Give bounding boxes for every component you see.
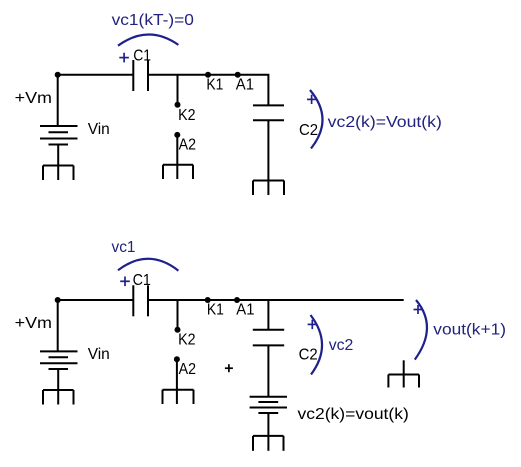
svg-text:K1: K1 [206, 77, 223, 94]
svg-text:C1: C1 [133, 48, 151, 65]
svg-text:vc2: vc2 [329, 337, 354, 354]
arc vc2 (top circuit) [310, 90, 323, 149]
svg-text:+Vm: +Vm [15, 90, 52, 107]
battery Vin (bottom circuit) [40, 351, 78, 369]
node K1 [205, 72, 211, 78]
svg-text:A1: A1 [236, 302, 254, 319]
svg-text:K2: K2 [178, 332, 195, 349]
wire (C1 right plate to C2 corner) [148, 75, 268, 106]
svg-text:vc1: vc1 [112, 239, 136, 256]
node N2 (Vin+ / C1 left, bottom circuit) [55, 297, 61, 303]
capacitor C2 (top circuit) [253, 105, 284, 120]
svg-text:vc2(k)=Vout(k): vc2(k)=Vout(k) [328, 114, 442, 131]
capacitor C1 (top circuit) [133, 60, 148, 91]
wire (C2 to battery vc2) [267, 345, 269, 396]
svg-text:Vin: Vin [88, 121, 110, 138]
svg-text:vc2(k)=vout(k): vc2(k)=vout(k) [298, 406, 409, 423]
node N1 (Vin+ / C1 left, top circuit) [55, 72, 61, 78]
arc vc2 (bottom circuit) [311, 315, 323, 375]
ground (C2, top circuit) [253, 181, 284, 196]
arc vc1 (top circuit) [118, 34, 178, 45]
node A2 [174, 132, 180, 138]
svg-text:+Vm: +Vm [15, 315, 52, 332]
capacitor C2 (bottom circuit) [253, 330, 284, 346]
ground (A2, top circuit) [163, 165, 193, 179]
polarity + of vc2 (blue, top circuit) [307, 95, 316, 104]
arc vout(k+1) [415, 300, 427, 360]
svg-text:K1: K1 [207, 302, 224, 319]
svg-text:A2: A2 [179, 136, 196, 153]
ground (Vin, bottom circuit) [43, 390, 74, 405]
wire (C1 right plate to right end, bottom) [148, 299, 404, 301]
wire (node to C1 left plate, bottom) [58, 299, 134, 301]
wire (K2 branch, bottom) [177, 300, 179, 330]
wire (K2 branch) [177, 75, 179, 105]
wire (battery vc2 to ground) [267, 413, 269, 451]
arc vc1 (bottom circuit) [118, 259, 178, 271]
battery vc2(k)=vout(k) [250, 397, 287, 413]
svg-text:C1: C1 [133, 272, 151, 289]
wire (A2 to ground) [176, 135, 178, 179]
svg-text:vout(k+1): vout(k+1) [433, 322, 506, 339]
svg-text:A2: A2 [179, 361, 196, 378]
ground (battery vc2) [253, 436, 284, 451]
svg-text:A1: A1 [236, 77, 254, 94]
node A1 (bottom) [234, 297, 240, 303]
ground (A2, bottom circuit) [163, 390, 194, 404]
capacitor C1 (bottom circuit) [133, 285, 148, 316]
node K2 [175, 102, 181, 108]
wire (battery to ground) [57, 145, 59, 181]
svg-text:vc1(kT-)=0: vc1(kT-)=0 [112, 12, 194, 29]
battery Vin (top circuit) [40, 126, 78, 145]
polarity + of vout (blue) [414, 305, 423, 314]
node A1 [235, 72, 241, 78]
wire (A2 to ground, bottom) [176, 359, 178, 404]
node K1 (bottom) [205, 297, 211, 303]
wire (battery to ground, bottom) [57, 369, 59, 405]
ground (vout reference) [388, 360, 419, 387]
node K2 (bottom) [175, 327, 181, 333]
polarity + of C1 (blue) [119, 53, 129, 63]
polarity + of battery vc2 (black) [225, 364, 233, 372]
wire (branch to C2, bottom) [267, 300, 269, 330]
svg-text:C2: C2 [299, 122, 318, 139]
wire (node to battery Vin) [57, 75, 59, 126]
wire (C2 to ground) [267, 120, 269, 195]
polarity + of vc2 (blue, bottom) [308, 320, 317, 329]
wire (node to battery Vin, bottom) [57, 300, 59, 351]
wire (node to C1 left plate) [58, 74, 134, 76]
polarity + of C1 (blue, bottom) [120, 277, 130, 287]
node A2 (bottom) [174, 356, 180, 362]
svg-text:K2: K2 [178, 107, 195, 124]
svg-text:Vin: Vin [88, 346, 110, 363]
svg-text:C2: C2 [299, 347, 318, 364]
ground (Vin, top circuit) [43, 166, 74, 181]
